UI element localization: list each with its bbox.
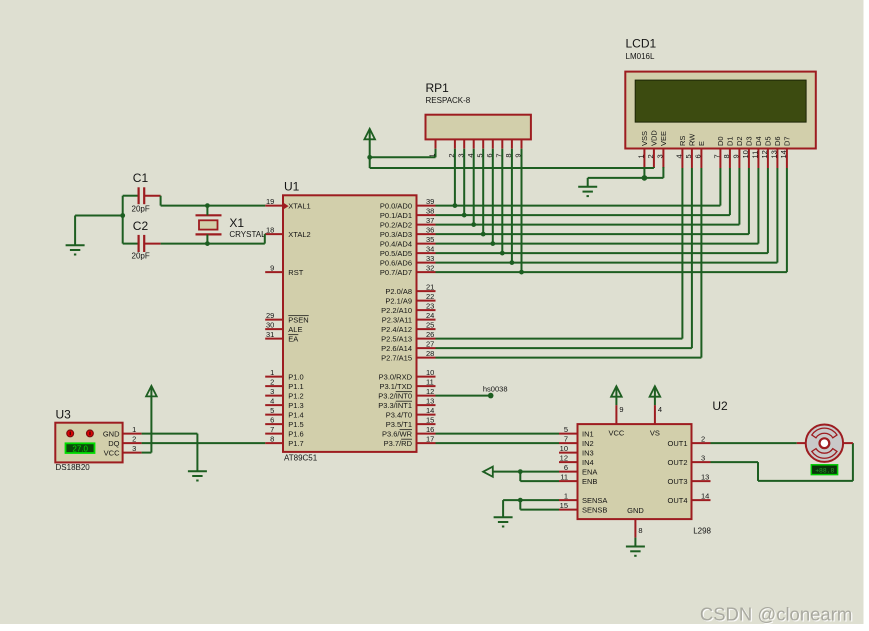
svg-text:IN3: IN3	[582, 448, 594, 457]
svg-text:33: 33	[426, 254, 434, 263]
wire LCD VDD stub join	[653, 167, 655, 168]
svg-text:11: 11	[751, 151, 760, 159]
svg-text:P2.1/A9: P2.1/A9	[385, 296, 412, 305]
U1 pin 2 P1.1	[265, 377, 304, 391]
svg-text:13: 13	[770, 150, 779, 158]
junction P0.6	[510, 260, 515, 265]
capacitor C2 20pF	[123, 219, 161, 261]
svg-text:U3: U3	[56, 408, 72, 422]
svg-text:P2.7/A15: P2.7/A15	[381, 353, 412, 362]
svg-text:28: 28	[426, 349, 434, 358]
svg-text:D0: D0	[716, 136, 725, 146]
ground symbol left	[66, 245, 85, 254]
U3 temperature display 27.0	[66, 443, 95, 453]
svg-text:SENSA: SENSA	[582, 496, 607, 505]
U1 pin 11 P3.1/TXD	[379, 377, 435, 391]
junction P0.0	[453, 203, 458, 208]
svg-text:15: 15	[426, 415, 434, 424]
U2 pin 6 ENA	[559, 463, 597, 477]
wire RP1 pin 4 to P0.2	[473, 149, 475, 225]
wire C2 to riser	[161, 243, 265, 245]
wire P3.7/RD to IN2	[436, 442, 560, 444]
svg-text:P0.3/AD3: P0.3/AD3	[380, 230, 412, 239]
U2 pin 15 SENSB	[559, 501, 607, 515]
wire LCD ground stem	[587, 178, 589, 187]
wire RP1 pin 7 to P0.5	[501, 149, 503, 253]
svg-text:12: 12	[760, 150, 769, 158]
svg-text:LCD1: LCD1	[626, 37, 657, 51]
wire LCD ground horizontal	[588, 177, 645, 179]
wire P0.4/AD4 to LCD D4	[436, 243, 759, 245]
svg-text:OUT1: OUT1	[667, 439, 687, 448]
svg-text:8: 8	[638, 526, 642, 535]
wire LCD D5 riser	[767, 168, 769, 253]
svg-text:14: 14	[426, 406, 434, 415]
svg-text:35: 35	[426, 235, 434, 244]
LCD LCD1 LM016L body	[625, 37, 816, 149]
svg-text:P3.4/T0: P3.4/T0	[386, 410, 412, 419]
U1 pin 33 P0.6/AD6	[380, 254, 436, 268]
U1 pin 23 P2.2/A10	[381, 301, 435, 315]
svg-text:32: 32	[426, 263, 434, 272]
U2 pin 14 OUT4	[667, 491, 710, 505]
power terminal VS U2	[654, 386, 656, 397]
junction P0.1	[462, 213, 467, 218]
svg-text:L298: L298	[693, 527, 711, 536]
svg-text:D1: D1	[726, 136, 735, 146]
wire LCD D7 riser	[786, 168, 788, 272]
svg-text:21: 21	[426, 282, 434, 291]
U1 pin 32 P0.7/AD7	[380, 263, 436, 277]
wire SENS ground riser	[502, 500, 504, 517]
U1 pin 37 P0.2/AD2	[380, 216, 436, 230]
U2 pin 8 GND	[635, 519, 642, 538]
svg-text:OUT4: OUT4	[667, 496, 687, 505]
junction SENSA/SENSB	[518, 498, 523, 503]
svg-text:10: 10	[741, 150, 750, 158]
U1 pin 34 P0.5/AD5	[380, 244, 436, 257]
U3 indicator LEDs	[67, 430, 74, 437]
svg-text:C1: C1	[133, 171, 149, 185]
svg-text:7: 7	[270, 425, 274, 434]
svg-text:DS18B20: DS18B20	[56, 463, 91, 472]
U3 pin 2 DQ	[123, 434, 142, 443]
LCD1 pin 8 D1	[722, 136, 735, 168]
wire U2 VCC stem	[615, 397, 617, 405]
U1 pin 10 P3.0/RXD	[379, 368, 436, 382]
input terminal arrow ENA	[483, 467, 493, 477]
wire ENA	[493, 471, 559, 473]
motor right terminal	[843, 442, 853, 444]
svg-text:31: 31	[266, 330, 274, 339]
svg-text:34: 34	[426, 244, 434, 253]
U2 pin 3 OUT2	[667, 453, 710, 467]
svg-text:9: 9	[619, 405, 623, 414]
U1 pin 15 P3.5/T1	[386, 415, 436, 429]
svg-text:14: 14	[701, 491, 709, 500]
svg-text:4: 4	[658, 405, 662, 414]
wire U2 GND stem	[634, 538, 636, 547]
U2 pin 1 SENSA	[559, 491, 607, 505]
wire LCD pin 5 riser	[691, 168, 693, 348]
svg-text:D6: D6	[773, 136, 782, 146]
svg-text:PSEN: PSEN	[288, 315, 308, 324]
svg-text:26: 26	[426, 330, 434, 339]
svg-text:38: 38	[426, 206, 434, 215]
wire RP1 pin1 to VCC	[370, 156, 436, 158]
svg-text:2: 2	[270, 377, 274, 386]
RP1 pin 2	[447, 139, 456, 157]
U1 pin 4 P1.3	[265, 396, 304, 410]
svg-text:AT89C51: AT89C51	[284, 454, 318, 463]
svg-text:11: 11	[560, 472, 568, 481]
svg-text:8: 8	[270, 434, 274, 443]
svg-text:P1.0: P1.0	[288, 372, 303, 381]
wire VCC arrow stem	[369, 139, 371, 168]
svg-text:1: 1	[637, 154, 646, 158]
svg-text:6: 6	[564, 463, 568, 472]
power terminal VCC near RP1	[369, 129, 371, 140]
svg-text:25: 25	[426, 320, 434, 329]
svg-text:1: 1	[270, 368, 274, 377]
svg-text:12: 12	[426, 387, 434, 396]
wire RP1 pin 3 to P0.1	[463, 149, 465, 215]
RP1 pin 1	[428, 139, 437, 157]
svg-text:7: 7	[713, 154, 722, 158]
svg-text:9: 9	[270, 263, 274, 272]
svg-text:9: 9	[732, 154, 741, 158]
U1 pin 26 P2.5/A13	[381, 330, 435, 344]
wire OUT1 to motor	[711, 442, 797, 444]
svg-text:RW: RW	[688, 133, 697, 146]
wire P3.2/INT0 to node hs0038	[436, 395, 491, 397]
wire RP1 pin1 drop	[435, 149, 437, 158]
svg-text:11: 11	[426, 377, 434, 386]
svg-text:SENSB: SENSB	[582, 505, 607, 514]
svg-text:17: 17	[426, 434, 434, 443]
svg-text:P0.4/AD4: P0.4/AD4	[380, 239, 412, 248]
wire SENSB	[520, 509, 559, 511]
LCD1 pin 11 D4	[751, 136, 764, 168]
wire motor return riser	[852, 443, 854, 481]
ground symbol U3	[188, 471, 207, 480]
capacitor C1 20pF	[123, 171, 161, 214]
svg-text:VCC: VCC	[104, 448, 120, 457]
svg-text:6: 6	[694, 154, 703, 158]
U2 pin 4 VS	[655, 405, 662, 424]
svg-text:23: 23	[426, 301, 434, 310]
wire OUT2 horizontal	[711, 461, 759, 463]
wire RP1 pin 9 to P0.7	[521, 149, 523, 272]
wire U3 DQ to P1.7	[142, 442, 266, 444]
svg-text:20pF: 20pF	[132, 205, 150, 214]
LCD1 pin 13 D6	[770, 136, 783, 168]
wire LCD VEE drop	[662, 167, 664, 178]
junction P0.5	[500, 251, 505, 256]
svg-text:3: 3	[701, 453, 705, 462]
LCD1 screen	[635, 80, 806, 122]
U1 pin 18 XTAL2	[265, 225, 310, 239]
junction C1/C2 ground branch	[120, 213, 125, 218]
wire RP1 pin 8 to P0.6	[511, 149, 513, 263]
svg-text:P2.0/A8: P2.0/A8	[385, 287, 412, 296]
wire LCD D4 riser	[757, 168, 759, 244]
svg-text:7: 7	[564, 434, 568, 443]
driver U2 L298 body	[578, 399, 729, 536]
svg-text:D5: D5	[764, 136, 773, 146]
ground symbol SENS	[494, 517, 513, 526]
svg-text:5: 5	[564, 425, 568, 434]
svg-text:4: 4	[675, 154, 684, 158]
svg-text:RST: RST	[288, 268, 303, 277]
wire ground branch horizontal	[75, 215, 123, 217]
U1 pin 7 P1.6	[265, 425, 304, 439]
wire C1 to XTAL1	[161, 205, 266, 207]
svg-text:P3.3/INT1: P3.3/INT1	[378, 401, 412, 410]
wire LCD VSS drop	[643, 167, 645, 178]
power terminal VCC U2	[615, 386, 617, 397]
node hs0038	[483, 385, 508, 399]
wire P0.0/AD0 to LCD D0	[436, 205, 721, 207]
U1 pin 31 EA	[265, 330, 298, 344]
svg-text:12: 12	[560, 453, 568, 462]
svg-text:15: 15	[560, 501, 568, 510]
U2 pin 10 IN3	[559, 444, 594, 458]
svg-text:22: 22	[426, 292, 434, 301]
svg-text:P0.6/AD6: P0.6/AD6	[380, 258, 412, 267]
svg-text:XTAL1: XTAL1	[288, 201, 310, 210]
wire LCD D3 riser	[748, 168, 750, 234]
svg-text:P2.6/A14: P2.6/A14	[381, 344, 412, 353]
U1 pin 14 P3.4/T0	[386, 406, 436, 420]
wire LCD VEE to VSS	[644, 177, 663, 179]
wire ground branch vertical	[74, 216, 76, 246]
svg-text:2: 2	[701, 434, 705, 443]
svg-text:P1.2: P1.2	[288, 391, 303, 400]
svg-text:RP1: RP1	[426, 81, 450, 95]
U1 pin 12 P3.2/INT0	[378, 387, 435, 401]
svg-text:ENB: ENB	[582, 477, 597, 486]
U2 pin 7 IN2	[559, 434, 594, 448]
sensor U3 DS18B20 body	[55, 408, 122, 473]
ground symbol LCD	[578, 187, 597, 196]
svg-text:D3: D3	[745, 136, 754, 146]
svg-text:LM016L: LM016L	[626, 52, 655, 61]
svg-text:P3.1/TXD: P3.1/TXD	[379, 382, 412, 391]
U1 pin 30 ALE	[265, 320, 302, 334]
U1 pin 36 P0.3/AD3	[380, 225, 436, 239]
svg-text:OUT3: OUT3	[667, 477, 687, 486]
svg-text:P2.5/A13: P2.5/A13	[381, 334, 412, 343]
svg-text:CSDN @clonearm: CSDN @clonearm	[700, 603, 852, 624]
svg-text:IN4: IN4	[582, 458, 594, 467]
RP1 pin 6	[485, 139, 494, 157]
LCD1 pin 5 RW	[684, 133, 697, 168]
svg-text:6: 6	[270, 415, 274, 424]
U1 pin 16 P3.6/WR	[382, 425, 436, 439]
LCD1 pin 3 VEE	[656, 131, 669, 168]
wire LCD D6 riser	[776, 168, 778, 263]
wire SENSB riser	[519, 500, 521, 510]
svg-text:2: 2	[132, 434, 136, 443]
wire RP1 pin 5 to P0.3	[482, 149, 484, 234]
svg-text:3: 3	[132, 444, 136, 453]
wire U2 VS stem	[654, 397, 656, 405]
wire P0.5/AD5 to LCD D5	[436, 252, 768, 254]
wire RP1 pin 6 to P0.4	[492, 149, 494, 244]
svg-text:VSS: VSS	[640, 131, 649, 146]
U1 pin 5 P1.4	[265, 406, 304, 420]
wire P0.7/AD7 to LCD D7	[436, 271, 787, 273]
svg-text:P0.7/AD7: P0.7/AD7	[380, 268, 412, 277]
U1 pin 25 P2.4/A12	[381, 320, 435, 334]
svg-text:3: 3	[270, 387, 274, 396]
svg-text:18: 18	[266, 225, 274, 234]
U1 pin 24 P2.3/A11	[382, 311, 436, 325]
wire C1 jog down	[160, 196, 162, 206]
svg-text:EA: EA	[288, 334, 298, 343]
wire P0.1/AD1 to LCD D1	[436, 214, 730, 216]
wire C1 to ground riser	[122, 196, 124, 244]
LCD1 pin 10 D3	[741, 136, 754, 168]
U1 pin 27 P2.6/A14	[381, 339, 435, 353]
svg-text:P3.7/RD: P3.7/RD	[384, 439, 413, 448]
wire LCD pin 4 riser	[681, 168, 683, 339]
U1 pin 38 P0.1/AD1	[380, 206, 436, 220]
U1 pin 29 PSEN	[265, 311, 309, 325]
junction X1 bottom	[205, 241, 210, 246]
svg-text:13: 13	[701, 472, 709, 481]
svg-text:5: 5	[684, 154, 693, 158]
svg-text:P3.0/RXD: P3.0/RXD	[379, 372, 413, 381]
svg-text:ENA: ENA	[582, 467, 597, 476]
wire U3 VCC horizontal	[142, 452, 152, 454]
svg-text:29: 29	[266, 311, 274, 320]
U2 pin 13 OUT3	[667, 472, 710, 486]
svg-text:39: 39	[426, 197, 434, 206]
wire ENB riser	[519, 472, 521, 482]
svg-text:P1.6: P1.6	[288, 429, 303, 438]
U2 pin 12 IN4	[559, 453, 594, 467]
RP1 pin 5	[475, 139, 484, 157]
ground symbol U2	[626, 547, 645, 556]
wire P2.7/A15 to LCD pin 6	[436, 357, 702, 359]
svg-text:1: 1	[132, 425, 136, 434]
svg-text:19: 19	[266, 197, 274, 206]
svg-text:RS: RS	[678, 136, 687, 146]
svg-text:C2: C2	[133, 219, 149, 233]
U1 pin 35 P0.4/AD4	[380, 235, 436, 249]
U2 pin 9 VCC	[616, 405, 623, 424]
U2 pin 5 IN1	[559, 425, 594, 439]
svg-text:XTAL2: XTAL2	[288, 230, 310, 239]
wire ENB	[520, 480, 559, 482]
svg-text:P0.0/AD0: P0.0/AD0	[380, 201, 412, 210]
crystal X1 CRYSTAL	[196, 215, 267, 239]
svg-text:P1.1: P1.1	[288, 382, 303, 391]
svg-text:P1.5: P1.5	[288, 420, 303, 429]
wire P0.3/AD3 to LCD D3	[436, 233, 749, 235]
svg-text:10: 10	[560, 444, 568, 453]
wire SENSA	[503, 499, 559, 501]
RP1 pin 3	[456, 139, 465, 157]
U1 pin 1 P1.0	[265, 368, 304, 382]
junction VCC rail	[367, 155, 372, 160]
RP1 pin 4	[466, 139, 475, 157]
wire riser to XTAL2	[264, 234, 266, 244]
wire LCD D0 riser	[719, 168, 721, 206]
junction P0.4	[490, 241, 495, 246]
svg-text:+88.8: +88.8	[815, 467, 834, 474]
svg-text:P0.2/AD2: P0.2/AD2	[380, 220, 412, 229]
svg-text:VEE: VEE	[659, 131, 668, 146]
wire U3 GND riser	[196, 434, 198, 472]
svg-text:ALE: ALE	[288, 325, 302, 334]
junction X1 top	[205, 203, 210, 208]
RP1 pin 7	[494, 139, 503, 157]
svg-text:30: 30	[266, 320, 274, 329]
U1 pin 13 P3.3/INT1	[378, 396, 435, 410]
svg-text:3: 3	[656, 154, 665, 158]
LCD1 pin 4 RS	[675, 136, 688, 168]
svg-text:27.0: 27.0	[72, 444, 88, 453]
RP1 pin 9	[514, 139, 523, 157]
svg-text:8: 8	[722, 154, 731, 158]
U1 pin 39 P0.0/AD0	[380, 197, 436, 211]
U1 pin 22 P2.1/A9	[385, 292, 435, 306]
svg-text:OUT2: OUT2	[667, 458, 687, 467]
junction P0.7	[519, 270, 524, 275]
svg-text:IN1: IN1	[582, 429, 594, 438]
U1 pin 9 RST	[265, 263, 304, 277]
svg-text:VCC: VCC	[608, 429, 624, 438]
svg-text:10: 10	[426, 368, 434, 377]
wire LCD pin 6 riser	[700, 168, 702, 358]
svg-text:36: 36	[426, 225, 434, 234]
LCD1 pin 12 D5	[760, 136, 773, 168]
U3 pin 1 GND	[123, 425, 142, 434]
svg-text:4: 4	[270, 396, 274, 405]
wire P0.2/AD2 to LCD D2	[436, 224, 740, 226]
svg-text:P2.2/A10: P2.2/A10	[381, 306, 412, 315]
svg-text:U1: U1	[284, 180, 300, 194]
junction LCD VSS/VEE	[642, 175, 648, 181]
svg-text:14: 14	[779, 150, 788, 158]
svg-text:GND: GND	[103, 429, 120, 438]
svg-text:37: 37	[426, 216, 434, 225]
U2 pin 2 OUT1	[667, 434, 710, 448]
wire VCC rail to LCD VDD	[370, 167, 654, 169]
U1 pin 3 P1.2	[265, 387, 304, 401]
svg-text:P3.2/INT0: P3.2/INT0	[378, 391, 412, 400]
U1 pin 28 P2.7/A15	[381, 349, 435, 363]
svg-text:U2: U2	[712, 399, 728, 413]
svg-text:P1.7: P1.7	[288, 439, 303, 448]
U2 pin 11 ENB	[559, 472, 597, 486]
motor symbol	[806, 425, 843, 462]
svg-text:2: 2	[646, 154, 655, 158]
svg-text:1: 1	[564, 491, 568, 500]
svg-text:16: 16	[426, 425, 434, 434]
U1 pin 17 P3.7/RD	[384, 434, 436, 448]
wire P3.6/WR to IN1	[436, 433, 560, 435]
svg-text:13: 13	[426, 396, 434, 405]
wire LCD D1 riser	[729, 168, 731, 215]
svg-text:D7: D7	[783, 136, 792, 146]
svg-text:24: 24	[426, 311, 434, 320]
svg-text:IN2: IN2	[582, 439, 594, 448]
LCD1 pin 7 D0	[713, 136, 726, 168]
